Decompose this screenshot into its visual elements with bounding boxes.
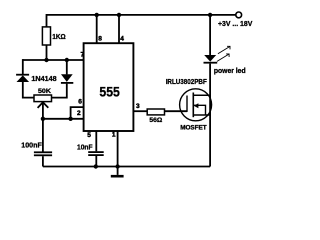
svg-text:4: 4 <box>120 36 124 43</box>
svg-text:2: 2 <box>77 110 81 117</box>
svg-text:IRLU3802PBF: IRLU3802PBF <box>166 79 208 86</box>
svg-text:7: 7 <box>81 51 85 58</box>
svg-text:555: 555 <box>99 84 120 100</box>
svg-text:50K: 50K <box>38 88 51 95</box>
svg-text:100nF: 100nF <box>21 143 42 150</box>
svg-text:+3V ... 18V: +3V ... 18V <box>218 21 253 28</box>
svg-text:5: 5 <box>87 132 91 139</box>
svg-text:6: 6 <box>78 98 82 105</box>
svg-text:1N4148: 1N4148 <box>31 76 56 83</box>
svg-text:MOSFET: MOSFET <box>180 125 207 132</box>
svg-text:8: 8 <box>98 36 102 43</box>
svg-text:10nF: 10nF <box>77 145 93 152</box>
svg-text:power led: power led <box>214 66 246 75</box>
svg-text:1: 1 <box>112 131 116 138</box>
svg-text:56Ω: 56Ω <box>149 117 162 124</box>
svg-text:3: 3 <box>136 103 140 110</box>
svg-text:1KΩ: 1KΩ <box>52 34 66 41</box>
